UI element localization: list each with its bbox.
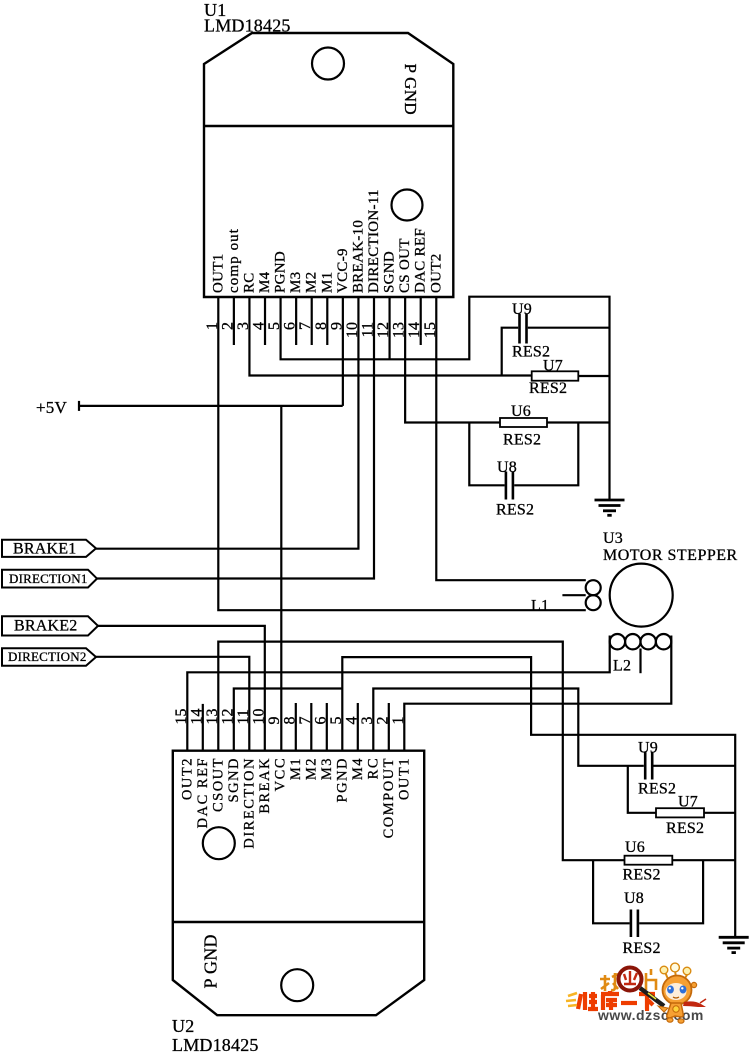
- svg-text:11: 11: [235, 709, 252, 724]
- svg-text:M1: M1: [288, 757, 304, 780]
- svg-text:BREAK: BREAK: [257, 757, 273, 814]
- svg-text:RES2: RES2: [529, 380, 567, 397]
- svg-text:VCC: VCC: [272, 757, 288, 791]
- svg-text:U9: U9: [638, 740, 658, 757]
- wire U2 pin1 OUT1 to L2 right: [404, 636, 671, 752]
- svg-text:L2: L2: [613, 658, 631, 675]
- svg-text:2: 2: [374, 717, 391, 725]
- svg-text:SGND: SGND: [226, 757, 242, 802]
- svg-text:M2: M2: [304, 272, 320, 293]
- wire U6 lower right to bus: [672, 859, 735, 861]
- wire U7 lower branch: [628, 766, 656, 813]
- U2 internal divider: [173, 921, 424, 923]
- svg-text:DAC REF: DAC REF: [195, 757, 211, 828]
- svg-text:OUT1: OUT1: [210, 253, 226, 293]
- svg-text:BRAKE2: BRAKE2: [14, 618, 77, 635]
- net flag DIRECTION2: [2, 648, 96, 665]
- wire U1 pin15 OUT2 to L1 top: [436, 296, 586, 580]
- svg-text:CS OUT: CS OUT: [397, 238, 413, 293]
- svg-text:CSOUT: CSOUT: [210, 757, 226, 812]
- +5V terminal tick: [78, 401, 80, 411]
- net flag DIRECTION1: [2, 570, 97, 588]
- wire U7 lower right to bus: [704, 812, 735, 814]
- wire U1 pin1 OUT1 to L1 bottom: [218, 296, 586, 610]
- wire U2 pin12 SGND ties to PGND wire: [234, 689, 342, 752]
- svg-text:13: 13: [204, 709, 221, 725]
- svg-text:U2: U2: [172, 1016, 194, 1036]
- wire U2 pin3 RC to lower resistor network: [373, 689, 644, 766]
- net flag BRAKE1: [2, 540, 96, 557]
- svg-text:RES2: RES2: [623, 940, 661, 957]
- svg-text:+5V: +5V: [36, 398, 67, 417]
- wire +5V rail to U1 pin9: [79, 405, 343, 407]
- ground symbol lower: [719, 936, 749, 939]
- svg-text:RES2: RES2: [496, 502, 534, 519]
- svg-text:M1: M1: [319, 272, 335, 293]
- svg-text:comp out: comp out: [226, 228, 242, 293]
- svg-text:LMD18425: LMD18425: [172, 1035, 259, 1053]
- wire U2 pin4 stub: [357, 703, 359, 751]
- svg-text:RES2: RES2: [503, 432, 541, 449]
- inductor L1 coil: [586, 580, 601, 595]
- svg-text:3: 3: [359, 717, 376, 725]
- chip U2 body: [173, 751, 424, 1016]
- svg-text:10: 10: [250, 709, 267, 725]
- L2 center tap stub: [639, 649, 641, 674]
- svg-text:OUT2: OUT2: [428, 253, 444, 293]
- wire U1 pin11 DIRECTION to DIRECTION1 flag: [97, 296, 374, 579]
- motor U3 body circle: [610, 564, 673, 627]
- svg-text:U3: U3: [603, 530, 623, 547]
- svg-text:DIRECTION1: DIRECTION1: [9, 571, 88, 586]
- wire U2 pin15 OUT2 to L2 left: [187, 636, 609, 752]
- svg-text:DIRECTION: DIRECTION: [241, 757, 257, 849]
- U1 internal divider: [204, 125, 453, 127]
- wire U8 upper right side: [514, 423, 578, 486]
- U1 mounting hole top: [312, 48, 344, 80]
- svg-text:RES2: RES2: [638, 781, 676, 798]
- wire U1 pin9 VCC to +5V: [342, 296, 344, 406]
- wire U1 pin4 stub: [264, 296, 266, 345]
- svg-text:U6: U6: [511, 403, 531, 420]
- wire U2 pin8 stub: [295, 703, 297, 751]
- svg-text:U8: U8: [497, 459, 517, 476]
- svg-text:RC: RC: [365, 757, 381, 779]
- L1 center tap stub: [562, 594, 585, 596]
- resistor U6 (upper): [500, 418, 547, 427]
- svg-text:BREAK-10: BREAK-10: [350, 220, 366, 293]
- svg-text:14: 14: [188, 709, 205, 725]
- wire U8 lower right side: [639, 860, 703, 923]
- U1 mounting hole lower: [392, 190, 423, 221]
- capacitor-style resistor U9 (lower): [644, 752, 647, 780]
- svg-text:U6: U6: [625, 839, 645, 856]
- svg-text:U9: U9: [512, 301, 532, 318]
- svg-text:4: 4: [343, 717, 360, 725]
- wire U2 pin5 PGND to lower ground bus: [342, 657, 735, 937]
- wire +5V branch down to U2 pin9 VCC: [280, 406, 282, 751]
- wire U2 pin11 DIRECTION to DIRECTION2 flag: [96, 657, 249, 751]
- svg-text:M3: M3: [288, 272, 304, 293]
- wire U2 pin10 BREAK to BRAKE2 flag: [98, 626, 265, 751]
- svg-text:M2: M2: [303, 757, 319, 780]
- svg-text:DAC REF: DAC REF: [413, 228, 429, 293]
- svg-text:RES2: RES2: [666, 820, 704, 837]
- wire U2 pin7 stub: [310, 703, 312, 751]
- wire U9 branch from pin3 node: [502, 328, 519, 376]
- ground symbol upper: [595, 499, 625, 502]
- wire U1 pin13 CS OUT to sense resistors: [405, 296, 500, 423]
- wire U1 pin12 SGND ties to PGND wire: [388, 296, 390, 359]
- wire U1 pin10 BREAK to BRAKE1 flag: [96, 296, 358, 549]
- svg-text:U7: U7: [678, 794, 698, 811]
- svg-text:VCC-9: VCC-9: [335, 248, 351, 293]
- svg-text:P GND: P GND: [201, 934, 221, 988]
- wire U2 pin6 stub: [326, 703, 328, 751]
- svg-text:12: 12: [219, 709, 236, 725]
- wire U1 pin5 PGND to ground bus: [281, 296, 610, 500]
- wire U7 upper right to ground bus: [578, 375, 609, 377]
- svg-text:MOTOR STEPPER: MOTOR STEPPER: [603, 547, 738, 564]
- svg-text:U7: U7: [543, 358, 563, 375]
- wire U1 pin6 stub: [295, 296, 297, 345]
- wire U1 pin8 stub: [326, 296, 328, 345]
- wire U1 pin7 stub: [311, 296, 313, 345]
- svg-text:M4: M4: [350, 757, 366, 780]
- svg-text:www.dzsc.com: www.dzsc.com: [597, 1007, 704, 1023]
- svg-text:BRAKE1: BRAKE1: [13, 540, 76, 557]
- svg-text:M3: M3: [319, 757, 335, 780]
- capacitor-style resistor U8 (upper): [505, 472, 508, 500]
- svg-text:DIRECTION-11: DIRECTION-11: [366, 189, 382, 293]
- svg-text:P GND: P GND: [401, 64, 420, 115]
- svg-text:M4: M4: [257, 271, 273, 293]
- resistor U6 (lower): [625, 856, 673, 865]
- wire U8 upper branch: [469, 423, 504, 486]
- svg-text:6: 6: [312, 717, 329, 725]
- net flag BRAKE2: [2, 616, 98, 635]
- wire U6 upper right to ground bus: [547, 421, 610, 423]
- resistor U7 (lower): [656, 808, 704, 817]
- U2 mounting hole upper: [203, 827, 235, 859]
- svg-text:RES2: RES2: [623, 867, 661, 884]
- wire U9 upper right to ground bus: [528, 327, 610, 329]
- chip U1 body: [204, 33, 453, 297]
- svg-text:COMPOUT: COMPOUT: [381, 757, 397, 838]
- svg-text:15: 15: [173, 709, 190, 725]
- wire U2 pin14 stub: [202, 704, 204, 751]
- watermark dzsc logo: [566, 963, 706, 1023]
- svg-text:RC: RC: [241, 272, 257, 293]
- wire U2 pin13 CSOUT to sense resistors: [218, 642, 624, 861]
- wire U9 lower right to bus: [654, 765, 736, 767]
- svg-text:8: 8: [281, 717, 298, 725]
- svg-text:9: 9: [266, 717, 283, 725]
- svg-text:L1: L1: [531, 597, 549, 614]
- svg-text:OUT2: OUT2: [179, 757, 195, 800]
- wire U1 pin2 stub: [233, 296, 235, 345]
- wire U2 pin2 stub: [388, 703, 390, 751]
- capacitor-style resistor U9 (upper): [518, 314, 521, 344]
- resistor U7 (upper): [532, 371, 579, 380]
- svg-text:5: 5: [328, 717, 345, 725]
- svg-text:PGND: PGND: [334, 757, 350, 802]
- svg-text:OUT1: OUT1: [396, 757, 412, 800]
- svg-text:DIRECTION2: DIRECTION2: [8, 649, 87, 664]
- wire U1 pin3 RC to resistor network: [249, 296, 531, 376]
- capacitor-style resistor U8 (lower): [630, 910, 633, 938]
- inductor L2 coil: [610, 634, 625, 649]
- svg-text:PGND: PGND: [273, 251, 289, 293]
- svg-text:7: 7: [297, 717, 314, 725]
- svg-text:1: 1: [390, 717, 407, 725]
- svg-text:U8: U8: [624, 890, 644, 907]
- wire U8 lower branch: [593, 860, 630, 923]
- svg-text:SGND: SGND: [382, 251, 398, 293]
- wire U1 pin14 stub: [420, 296, 422, 345]
- U2 mounting hole lower: [281, 969, 313, 1001]
